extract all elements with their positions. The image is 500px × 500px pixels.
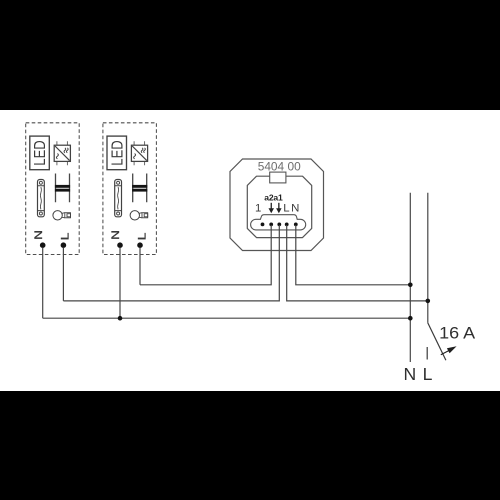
LED label box 2 [107, 136, 127, 170]
bottom black band [0, 391, 500, 500]
svg-text:L: L [137, 233, 149, 241]
wire box2 N down [119, 248, 121, 319]
junction box2 N [118, 316, 123, 321]
terminal dot N box 1 [40, 242, 46, 248]
terminal dot N box 2 [117, 242, 123, 248]
wire box1 N down [42, 248, 44, 319]
load box 2 (dashed enclosure) [103, 123, 156, 255]
junction device L [426, 299, 431, 304]
conventional transformer symbol box 1 [55, 174, 70, 203]
svg-text:N: N [404, 364, 417, 384]
supply L vertical [427, 193, 429, 323]
wire a1 to box1 L [63, 225, 279, 301]
electronic transformer symbol box 1 [54, 141, 70, 165]
terminal dot a2 [269, 223, 273, 227]
wire device N to supply [296, 225, 411, 285]
terminal dot N [294, 223, 298, 227]
wire box1 L down [62, 248, 64, 301]
svg-text:L: L [423, 364, 433, 384]
electronic transformer symbol box 2 [131, 141, 147, 165]
junction device N [408, 283, 413, 288]
LED label box 1 [30, 136, 50, 170]
svg-text:a2a1: a2a1 [264, 192, 283, 202]
conventional transformer symbol box 2 [132, 174, 147, 203]
svg-text:N: N [291, 203, 299, 215]
claw rectangle [270, 172, 286, 183]
supply N vertical [409, 193, 411, 362]
wire N bus [43, 317, 411, 319]
top black band [0, 0, 500, 110]
wire a2 to box2 L [140, 225, 271, 285]
incandescent lamp symbol box 1 [53, 211, 71, 220]
svg-text:L: L [283, 203, 289, 215]
svg-text:L: L [59, 233, 71, 241]
terminal dot a1 [277, 223, 281, 227]
switch fixed contact [426, 347, 428, 360]
incandescent lamp symbol box 2 [130, 211, 148, 220]
svg-text:N: N [33, 230, 45, 240]
arrow pin a2 [269, 203, 275, 213]
svg-text:1: 1 [255, 203, 261, 215]
svg-text:16 A: 16 A [439, 325, 475, 343]
svg-text:LED: LED [32, 140, 49, 165]
wire box2 L down [139, 248, 141, 285]
load box 1 (dashed enclosure) [26, 123, 79, 255]
terminal dot L [285, 223, 289, 227]
insert U1 outer octagon [230, 159, 324, 251]
switch actuator arrow [441, 346, 457, 355]
svg-text:N: N [110, 230, 122, 240]
wire device L to supply [287, 225, 428, 301]
svg-text:LED: LED [109, 140, 126, 165]
terminal dot 1 [261, 223, 265, 227]
fluorescent lamp symbol box 2 [115, 180, 122, 217]
svg-text:5404 00: 5404 00 [258, 159, 301, 173]
arrow pin a1 [276, 203, 282, 213]
terminal dot L box 2 [137, 242, 143, 248]
insert U1 inner frame [247, 176, 311, 237]
terminal dot L box 1 [61, 242, 67, 248]
switch blade [428, 323, 446, 360]
junction N bus [408, 316, 413, 321]
terminal block pill [251, 215, 306, 230]
fluorescent lamp symbol box 1 [38, 180, 45, 217]
